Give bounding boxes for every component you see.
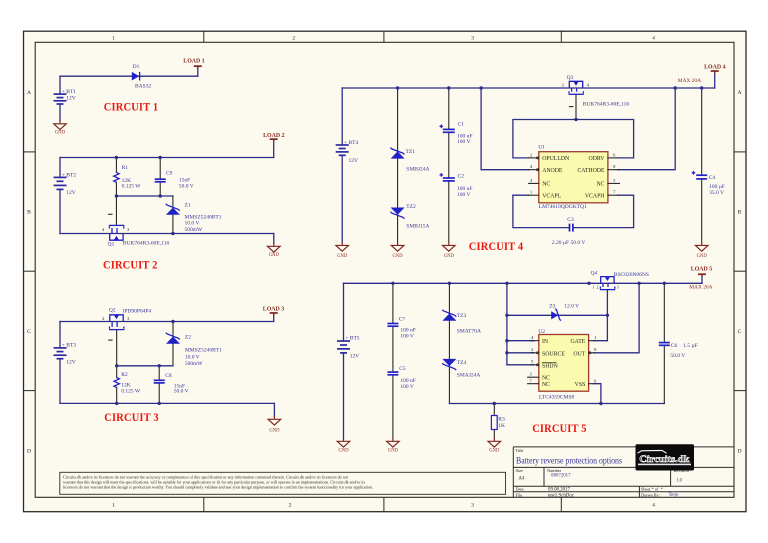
resistor R1 [114,172,119,182]
wire TZ1 TZ2 vertical [397,88,399,243]
capacitor C9 [155,179,166,182]
zone tick B|C left [24,270,36,272]
wire GND drop circuit3 [273,403,275,416]
wire R1 top stub [115,158,117,173]
junction SOURCE left [505,351,508,354]
op-amp U2 [539,335,589,392]
svg-text:GND: GND [337,254,348,259]
wire Q4 gate riser [594,291,608,341]
ground GND C5 [387,438,400,454]
battery BT4 [336,145,349,155]
wire circuit2 top rail [60,157,274,159]
wire circuit3 top rail [60,321,274,323]
svg-text:C2: C2 [458,174,465,180]
svg-text:Title: Title [516,448,524,453]
node disclaimer box [60,472,506,494]
wire BT3 bottom to rail [59,359,61,404]
svg-text:3: 3 [617,285,619,289]
junction ANODE rail [479,86,482,89]
wire LOAD5 drop [701,276,703,284]
svg-text:GND: GND [55,131,66,136]
svg-text:CATHODE: CATHODE [577,168,605,174]
wire CATHODE to rail [618,88,675,170]
svg-text:GND: GND [393,254,404,259]
svg-text:+ BT1: + BT1 [62,89,77,95]
wire gate node mid circuit3 [117,365,173,367]
svg-text:1K: 1K [498,423,505,429]
svg-text:Q4: Q4 [591,271,598,277]
svg-text:2: 2 [289,503,292,509]
capacitor C2 [440,173,455,181]
wire C8 top stub [158,366,160,380]
transistor Q4 [600,277,615,290]
svg-text:50.0 V: 50.0 V [174,389,189,395]
svg-text:TZ4: TZ4 [457,360,467,366]
zone tick A|B right [734,151,746,153]
junction C6 rail [663,282,666,285]
wire circuit5 top rail [344,282,703,284]
svg-text:TZ3: TZ3 [457,313,467,319]
svg-text:C6: C6 [671,343,678,349]
svg-text:SMBJ24A: SMBJ24A [406,166,429,172]
pin stub 5 of U1 [608,182,620,184]
svg-text:500mW: 500mW [185,227,204,233]
ground GND circuit3 [268,416,281,433]
zone tick 3|4 top [560,31,562,42]
pin stub 8 of U1 [608,169,618,171]
svg-text:B: B [738,210,742,216]
svg-text:GND: GND [444,254,455,259]
svg-text:12V: 12V [66,96,76,102]
svg-text:+ BT5: + BT5 [345,336,360,342]
svg-text:1.5 µF: 1.5 µF [683,343,697,349]
svg-text:1: 1 [112,503,115,509]
ground GND R3 [488,438,501,454]
svg-text:MMSZ5240BT1: MMSZ5240BT1 [185,214,222,220]
svg-text:GND: GND [489,449,500,454]
svg-text:GND: GND [269,253,280,258]
wire Z1 vertical [172,196,174,234]
svg-text:Size: Size [516,468,523,473]
svg-text:NC: NC [542,182,550,188]
wire IN row [507,340,534,342]
wire LOAD3 drop [273,314,275,322]
tvs diode TZ3 [442,310,456,321]
junction C8 top [158,364,161,367]
svg-text:GND: GND [269,428,280,433]
svg-text:12V: 12V [349,158,359,164]
svg-text:D1: D1 [133,64,140,70]
transistor Q1 [109,214,125,240]
svg-text:10.0 V: 10.0 V [185,354,200,360]
svg-text:CIRCUIT 4: CIRCUIT 4 [469,239,524,253]
op-amp U1 [539,152,608,203]
svg-text:Z1: Z1 [185,202,191,208]
junction R1 top [115,156,118,159]
wire BT5 top stub [343,283,345,341]
svg-text:LTC4359CMS8: LTC4359CMS8 [539,395,575,401]
svg-text:100 V: 100 V [400,333,414,339]
svg-text:+ BT4: + BT4 [344,140,359,146]
svg-text:VCAPL: VCAPL [542,194,561,200]
battery BT2 [54,177,67,189]
zone tick B|C right [734,270,746,272]
svg-text:50.0 V: 50.0 V [179,183,194,189]
capacitor C6 [659,343,670,346]
svg-text:09.08.2017: 09.08.2017 [548,488,571,493]
pin stub 6 of U2 [589,383,594,385]
svg-text:LOAD 2: LOAD 2 [263,133,284,139]
junction C1 rail [447,86,450,89]
zone tick C|D left [24,390,36,392]
tvs diode TZ2 [390,208,404,219]
junction C7 rail [391,282,394,285]
capacitor C7 [387,324,398,327]
title block outline [513,447,734,497]
svg-text:Terje: Terje [669,493,679,498]
svg-text:4: 4 [652,36,655,42]
wire C4 drop [701,88,703,175]
svg-text:12.0 V: 12.0 V [564,304,579,310]
svg-text:BAS32: BAS32 [135,84,151,90]
svg-text:Date: Date [516,487,524,492]
ground GND BT1 [54,121,67,136]
svg-text:C3: C3 [567,217,574,223]
diode D1 [132,72,140,81]
svg-text:NC: NC [542,376,550,382]
pin stub 4 of U1 [529,169,539,171]
junction gate R2 [115,364,118,367]
svg-text:D: D [737,449,741,455]
capacitor C5 [387,372,398,375]
svg-text:LOAD 4: LOAD 4 [704,65,725,71]
svg-text:1.0: 1.0 [676,478,683,483]
svg-text:Q2: Q2 [109,307,116,313]
wire BT2 bottom to rail [59,189,61,233]
wire OUT to rail [594,283,639,353]
svg-text:C8: C8 [165,373,172,379]
pin stub 5 of U2 [531,364,539,366]
zener Z3 [551,309,561,321]
wire Q3 gate [575,95,577,120]
svg-text:TZ2: TZ2 [406,204,416,210]
tvs diode TZ4 [442,359,456,370]
battery BT1 [54,94,67,104]
svg-text:CIRCUIT 3: CIRCUIT 3 [104,410,159,424]
svg-text:+ BT3: + BT3 [62,343,77,349]
svg-text:10.0 V: 10.0 V [185,221,200,227]
pin stub 2 of U2 [531,352,539,354]
svg-text:SHDN: SHDN [542,363,559,369]
svg-text:C5: C5 [399,366,406,372]
svg-text:100 V: 100 V [457,139,471,145]
tvs diode TZ1 [390,148,404,159]
ground GND TZ2 [391,242,404,259]
svg-text:C: C [27,329,31,335]
svg-text:1: 1 [593,285,595,289]
svg-text:C: C [738,329,742,335]
svg-text:Drawn By:: Drawn By: [641,492,660,497]
svg-text:Z3: Z3 [549,304,555,310]
junction Z3 gate riser [606,314,609,317]
svg-text:NC: NC [596,182,604,188]
svg-text:1: 1 [112,36,115,42]
junction OUT rail [637,282,640,285]
svg-text:12V: 12V [66,359,76,365]
pin stub 1 of U1 [529,194,539,196]
ground GND circuit2 [268,243,281,258]
wire R2 top stub [116,366,118,378]
zener Z1 [166,204,180,215]
wire C7 C5 vertical [392,283,394,323]
svg-text:2.20 µF 50.0 V: 2.20 µF 50.0 V [552,240,586,246]
svg-text:2: 2 [597,285,599,289]
wire R2 bottom stub [116,388,118,404]
svg-text:File: File [516,492,523,497]
pin stub 4 of U2 [531,340,539,342]
wire SOURCE row [507,352,534,354]
junction TZ3 rail [448,282,451,285]
svg-text:Z2: Z2 [185,335,191,341]
transistor Q3 [569,81,584,106]
wire C6 drop [663,283,665,342]
wire C6 to bottom rail [663,346,665,404]
pin stub 6 of U1 [608,157,618,159]
svg-text:R1: R1 [122,165,129,171]
pin stub 7 of U2 [528,383,539,385]
svg-text:Number: Number [547,468,562,473]
svg-text:NC: NC [542,382,550,388]
wire C4 to GND [701,179,703,243]
svg-text:3: 3 [471,36,474,42]
svg-text:C9: C9 [166,170,173,176]
ground GND C4 [695,242,708,259]
wire Z2 vertical [172,322,174,366]
wire BT1 bottom to GND [59,104,61,121]
ground GND BT4 [336,242,349,259]
svg-text:VSS: VSS [575,382,586,388]
svg-text:SOURCE: SOURCE [542,351,565,357]
resistor R2 [114,378,119,388]
junction IN left [505,339,508,342]
svg-text:A4: A4 [519,477,526,482]
zone tick 1|2 bottom [203,497,205,511]
capacitor C4 [692,171,708,179]
svg-text:CIRCUIT 5: CIRCUIT 5 [532,421,587,435]
svg-text:C7: C7 [399,316,406,322]
pin stub 3 of U2 [528,376,539,378]
svg-text:test1.SchDoc: test1.SchDoc [548,493,575,498]
wire GND drop circuit2 [273,234,275,244]
svg-text:0.125 W: 0.125 W [122,184,142,190]
wire R1 bottom stub [115,182,117,196]
svg-text:U2: U2 [538,329,545,335]
svg-text:R3: R3 [498,417,505,423]
wire SHDN row [507,364,534,366]
power port LOAD 2 [263,133,284,142]
node Circuits.dk logo [636,444,695,470]
svg-text:3: 3 [471,503,474,509]
svg-text:MAX 20A: MAX 20A [678,78,701,84]
svg-text:Circuits.dk: Circuits.dk [639,454,690,465]
svg-text:100 V: 100 V [400,384,414,390]
wire R3 to GND [493,430,495,439]
wire C1 C2 vertical [448,88,450,129]
wire BT3 top stub [59,322,61,348]
svg-text:12V: 12V [66,190,76,196]
wire BT5 bottom to GND [343,353,345,438]
junction C9 top [159,156,162,159]
svg-text:BSC026N06NS: BSC026N06NS [614,272,649,278]
svg-text:R2: R2 [121,372,128,378]
wire VCAPH loop [573,195,633,227]
junction Q4 source rail [587,282,590,285]
junction TZ1 rail [396,86,399,89]
wire gate node mid circuit2 [116,195,172,197]
svg-text:4: 4 [652,503,655,509]
inner border frame [35,42,734,497]
junction Z1 bottom [171,232,174,235]
svg-text:Battery reverse protection opt: Battery reverse protection options [516,456,622,466]
zone tick 2|3 bottom [383,497,385,511]
svg-text:A: A [27,90,31,96]
wire LOAD4 drop [714,72,716,89]
junction C8 bottom [158,402,161,405]
pin stub 8 of U2 [589,352,594,354]
power port LOAD 4 [704,65,725,74]
zone tick 3|4 bottom [560,497,562,511]
ground GND BT5 [337,438,350,454]
svg-text:IPD90P04P4: IPD90P04P4 [123,308,152,314]
wire circuit3 bottom rail [60,402,274,404]
transistor Q2 [109,315,125,340]
svg-text:2: 2 [292,36,295,42]
svg-text:+ BT2: + BT2 [62,172,77,178]
wire Q2 gate [116,330,118,366]
svg-text:C4: C4 [709,175,716,181]
power port LOAD 3 [263,307,284,316]
zone tick 1|2 top [203,31,205,42]
zone tick 2|3 top [383,31,385,42]
zone tick A|B left [24,151,36,153]
svg-text:IN: IN [542,339,549,345]
capacitor C3 [570,224,573,232]
wire C8 bottom stub [158,383,160,403]
pin stub 7 of U1 [608,194,618,196]
svg-text:Q1: Q1 [108,241,115,247]
pin stub 3 of U1 [529,182,539,184]
battery BT3 [54,348,67,359]
wire TZ3 TZ4 vertical [448,283,450,403]
svg-text:LOAD 3: LOAD 3 [263,307,284,313]
svg-text:LOAD 1: LOAD 1 [183,59,204,65]
junction Q3 gate loop [574,118,577,121]
junction CATHODE rail [674,86,677,89]
svg-text:ODRV: ODRV [589,156,606,162]
svg-text:GATE: GATE [570,339,585,345]
svg-text:ANODE: ANODE [542,168,563,174]
junction VSS bottom rail [599,402,602,405]
wire BT4 top stub [341,88,343,145]
svg-text:GND: GND [388,449,399,454]
svg-text:GND: GND [697,254,708,259]
svg-text:OUT: OUT [573,351,585,357]
junction R3 bottom rail [493,402,496,405]
wire C9 top stub [159,158,161,180]
wire VCAPL loop [513,195,569,227]
wire circuit4 top rail [342,87,715,89]
svg-text:100 V: 100 V [457,192,471,198]
resistor R3 [491,416,497,430]
junction left riser rail [505,282,508,285]
junction Z3 left [505,314,508,317]
svg-text:500mW: 500mW [185,361,204,367]
svg-text:D: D [27,449,31,455]
svg-text:B: B [27,210,31,216]
svg-text:U1: U1 [538,145,545,151]
battery BT5 [337,341,350,353]
svg-text:12V: 12V [350,354,360,360]
wire Z3 row [507,314,608,316]
wire BT4 bottom to GND [341,155,343,242]
pin stub 1 of U2 [589,340,594,342]
svg-text:TZ1: TZ1 [406,149,416,155]
ground GND C2 [443,242,456,259]
svg-text:35.0 V: 35.0 V [709,190,724,196]
capacitor C8 [154,380,165,383]
wire left riser circuit5 [506,283,508,365]
svg-text:VCAPH: VCAPH [585,194,605,200]
svg-text:SMBJ15A: SMBJ15A [406,224,429,230]
svg-text:OPULLDN: OPULLDN [542,156,570,162]
wire LOAD1 drop [197,67,199,76]
wire BT1 top to rail [59,76,61,94]
wire LOAD2 drop [273,141,275,158]
zone tick C|D right [734,390,746,392]
svg-text:GND: GND [338,449,349,454]
svg-text:CIRCUIT 1: CIRCUIT 1 [104,100,159,114]
junction R1 bottom gate [115,194,118,197]
svg-text:Q3: Q3 [567,75,574,81]
wire circuit1 top rail [60,75,198,77]
wire C9 bottom stub [159,182,161,196]
wire ANODE riser [481,88,528,170]
zener Z2 [166,333,180,344]
svg-text:LM74610QDGKTQ1: LM74610QDGKTQ1 [539,204,587,210]
wire OPULLDN loop [513,120,634,158]
svg-text:50.0 V: 50.0 V [670,353,685,359]
svg-text:A: A [737,90,741,96]
wire circuit2 bottom rail [60,233,274,235]
svg-text:licensors do not warrant that: licensors do not warrant that the design… [63,485,373,490]
junction R2 bottom [115,402,118,405]
wire circuit5 bottom rail [449,403,664,405]
wire Q1 gate [115,196,117,225]
svg-text:SMAT70A: SMAT70A [457,329,481,335]
wire R3 drop [493,404,495,416]
svg-text:MAX 26A: MAX 26A [689,284,712,290]
wire BT2 top stub [59,158,61,178]
svg-text:SMAJ24A: SMAJ24A [457,373,481,379]
svg-text:BUK764R3-60E,116: BUK764R3-60E,116 [583,101,630,107]
svg-text:BUK764R3-60E,116: BUK764R3-60E,116 [123,240,170,246]
junction Z2 top [171,320,174,323]
pin stub 2 of U1 [529,157,539,159]
power port LOAD 5 [691,266,712,277]
svg-text:0.125 W: 0.125 W [121,389,141,395]
svg-text:Sheet * of *: Sheet * of * [641,487,663,492]
svg-text:MMSZ5240BT1: MMSZ5240BT1 [185,348,222,354]
